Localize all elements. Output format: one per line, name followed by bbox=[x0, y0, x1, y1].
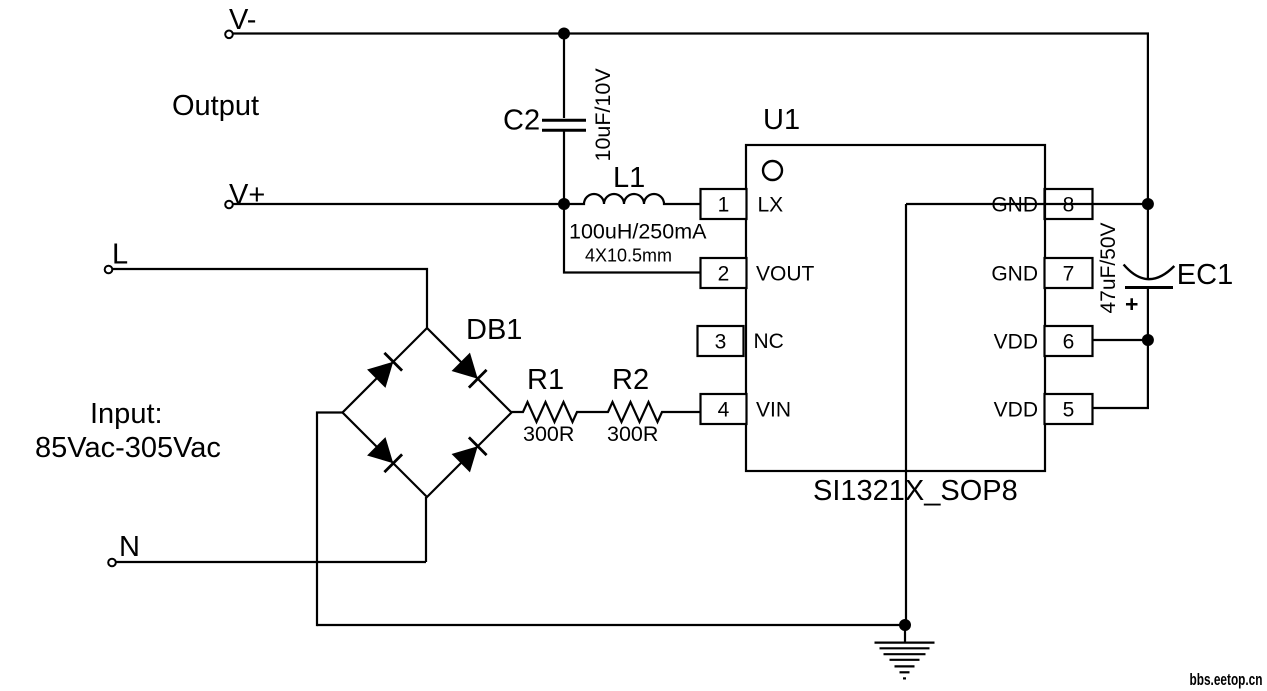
svg-text:2: 2 bbox=[718, 263, 730, 286]
svg-text:VOUT: VOUT bbox=[756, 263, 815, 286]
svg-text:Input:: Input: bbox=[90, 398, 163, 430]
svg-text:L1: L1 bbox=[613, 162, 645, 194]
svg-text:300R: 300R bbox=[607, 422, 658, 446]
svg-text:VDD: VDD bbox=[994, 399, 1038, 422]
svg-text:100uH/250mA: 100uH/250mA bbox=[569, 220, 707, 244]
svg-text:V+: V+ bbox=[229, 179, 265, 211]
svg-text:N: N bbox=[119, 531, 140, 563]
svg-text:R2: R2 bbox=[612, 364, 649, 396]
svg-text:LX: LX bbox=[758, 194, 784, 217]
svg-text:300R: 300R bbox=[523, 422, 574, 446]
svg-text:R1: R1 bbox=[527, 364, 564, 396]
svg-text:VIN: VIN bbox=[756, 399, 791, 422]
svg-text:8: 8 bbox=[1063, 194, 1075, 217]
svg-text:EC1: EC1 bbox=[1177, 259, 1233, 291]
svg-text:DB1: DB1 bbox=[466, 314, 522, 346]
svg-text:Output: Output bbox=[172, 90, 259, 122]
svg-text:V-: V- bbox=[229, 4, 256, 36]
svg-text:1: 1 bbox=[718, 194, 730, 217]
svg-text:85Vac-305Vac: 85Vac-305Vac bbox=[35, 432, 221, 464]
svg-text:C2: C2 bbox=[503, 105, 540, 137]
svg-text:7: 7 bbox=[1063, 263, 1075, 286]
svg-text:SI1321X_SOP8: SI1321X_SOP8 bbox=[813, 475, 1018, 507]
svg-text:L: L bbox=[112, 239, 128, 271]
svg-text:6: 6 bbox=[1063, 331, 1075, 354]
svg-text:NC: NC bbox=[754, 330, 784, 353]
svg-text:U1: U1 bbox=[763, 104, 800, 136]
svg-text:5: 5 bbox=[1063, 399, 1075, 422]
svg-text:GND: GND bbox=[991, 263, 1038, 286]
svg-text:GND: GND bbox=[991, 194, 1038, 217]
svg-text:+: + bbox=[1125, 291, 1138, 317]
svg-text:4X10.5mm: 4X10.5mm bbox=[585, 246, 672, 266]
svg-text:10uF/10V: 10uF/10V bbox=[591, 68, 615, 162]
svg-text:4: 4 bbox=[718, 399, 730, 422]
svg-text:VDD: VDD bbox=[994, 331, 1038, 354]
svg-text:bbs.eetop.cn: bbs.eetop.cn bbox=[1190, 671, 1263, 689]
svg-text:3: 3 bbox=[715, 331, 727, 354]
svg-text:47uF/50V: 47uF/50V bbox=[1097, 222, 1120, 313]
